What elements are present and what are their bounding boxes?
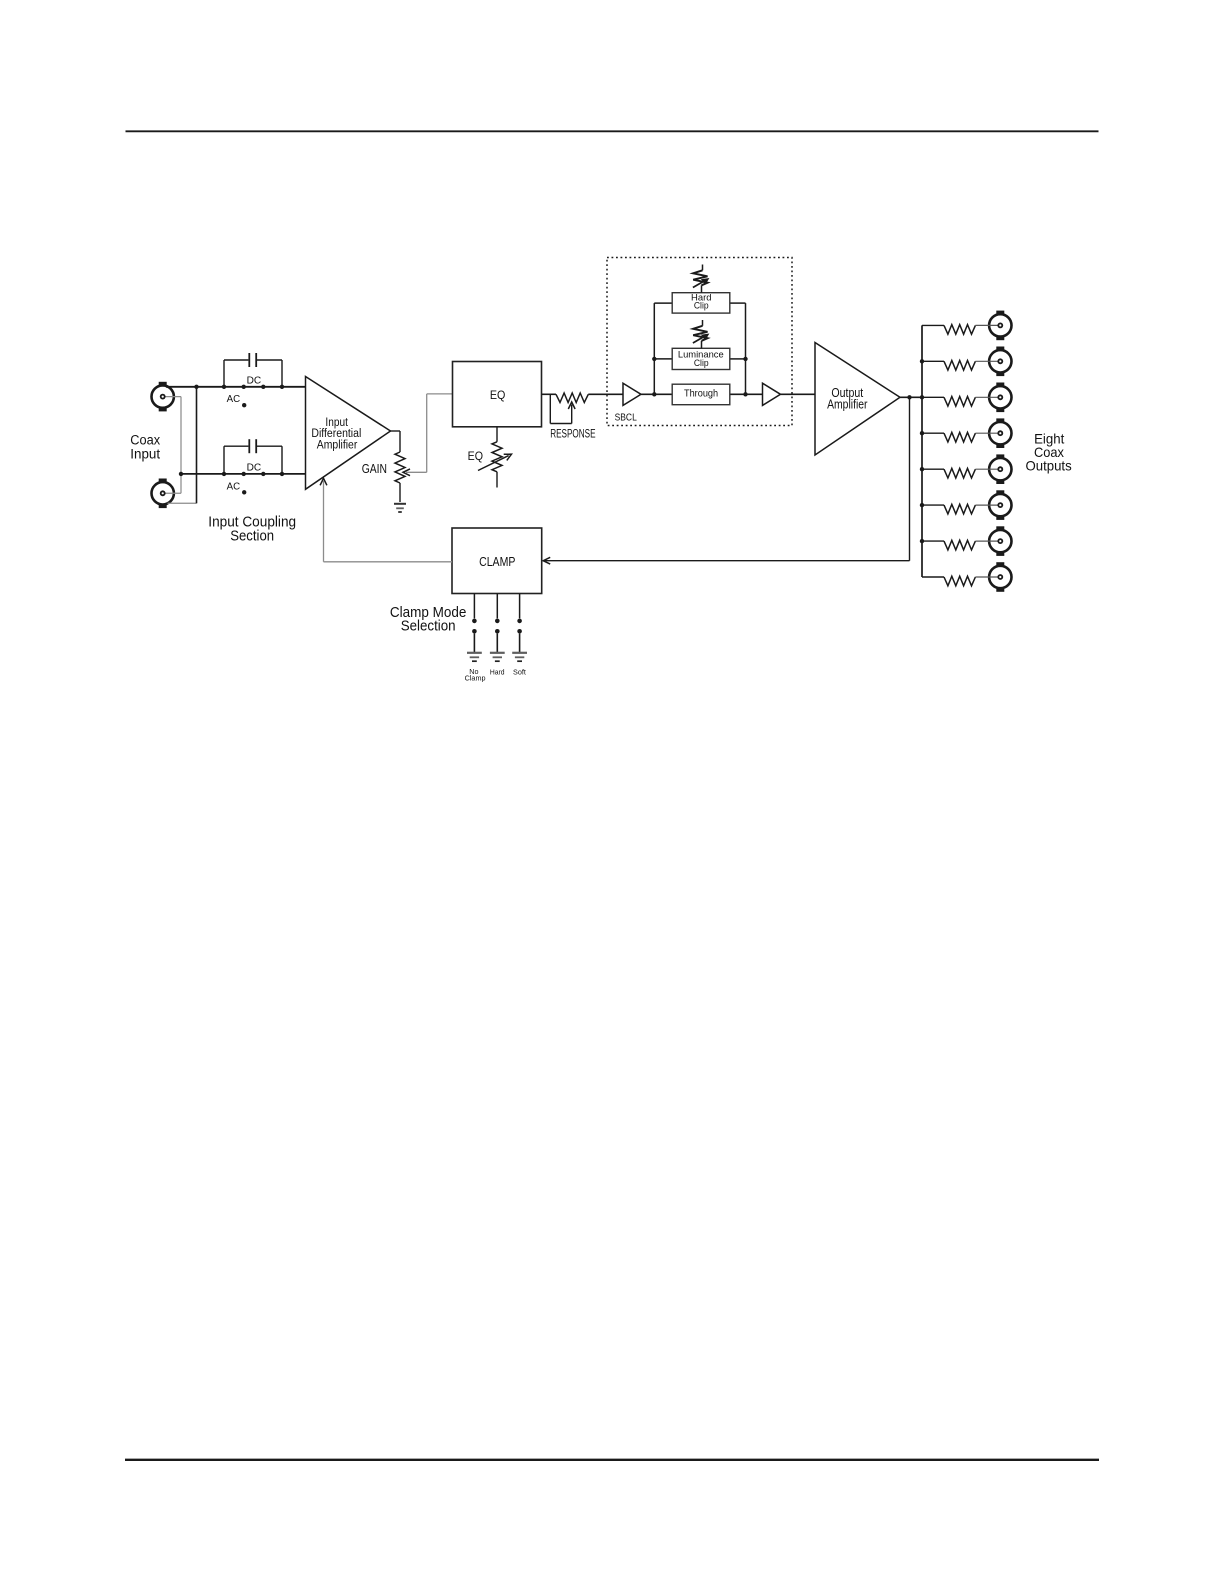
svg-text:Selection: Selection <box>401 618 456 635</box>
svg-text:Through: Through <box>684 388 718 399</box>
svg-text:EQ: EQ <box>468 449 483 463</box>
svg-text:AC: AC <box>227 394 241 405</box>
svg-text:Outputs: Outputs <box>1026 458 1072 474</box>
svg-text:Section: Section <box>230 527 274 544</box>
svg-text:Amplifier: Amplifier <box>317 439 358 451</box>
svg-text:Input: Input <box>130 446 160 461</box>
svg-text:Clip: Clip <box>694 301 709 311</box>
svg-text:SBCL: SBCL <box>615 412 637 424</box>
svg-text:Hard: Hard <box>490 667 505 676</box>
svg-text:Soft: Soft <box>513 667 526 676</box>
svg-text:Coax: Coax <box>130 433 160 448</box>
svg-text:Amplifier: Amplifier <box>827 397 867 411</box>
svg-text:Differential: Differential <box>311 428 361 440</box>
svg-text:AC: AC <box>227 481 241 492</box>
svg-text:DC: DC <box>247 375 262 386</box>
svg-text:RESPONSE: RESPONSE <box>550 429 596 441</box>
svg-text:DC: DC <box>247 463 262 474</box>
svg-text:EQ: EQ <box>490 388 506 402</box>
svg-text:CLAMP: CLAMP <box>479 554 515 569</box>
svg-text:GAIN: GAIN <box>362 462 387 476</box>
svg-text:Clamp: Clamp <box>465 673 486 682</box>
svg-text:Clip: Clip <box>694 358 709 368</box>
